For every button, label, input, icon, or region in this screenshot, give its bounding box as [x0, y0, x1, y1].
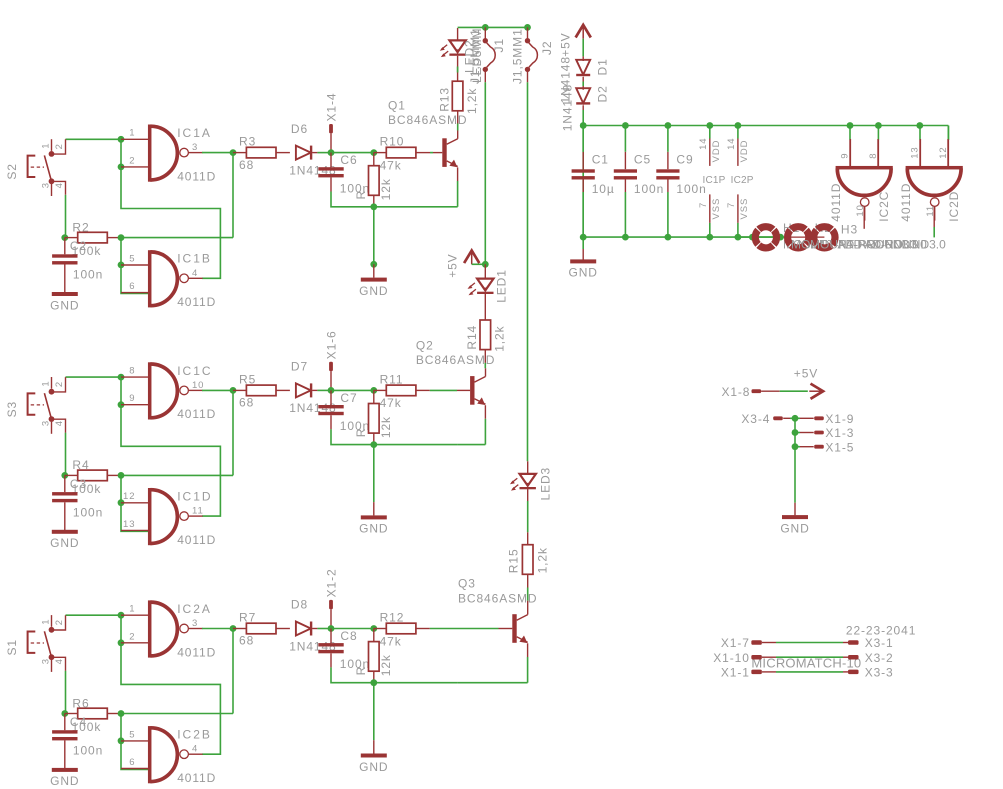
- svg-text:D2: D2: [595, 85, 609, 102]
- svg-text:9: 9: [840, 153, 851, 159]
- junction: [61, 472, 68, 479]
- svg-text:5: 5: [129, 253, 135, 264]
- transistor Q2 BC846ASMD: [416, 338, 495, 405]
- svg-text:4011D: 4011D: [177, 407, 216, 421]
- junction: [118, 374, 125, 381]
- wire Q2 emitter down: [484, 405, 486, 419]
- svg-text:X1-8: X1-8: [721, 385, 750, 399]
- wire diode to junction: [317, 152, 331, 154]
- svg-text:C8: C8: [340, 629, 357, 643]
- svg-text:Q2: Q2: [416, 338, 434, 352]
- junction: [524, 24, 531, 31]
- LED LED1: [468, 264, 509, 303]
- diode D6: [289, 122, 336, 178]
- junction: [118, 234, 125, 241]
- svg-text:X1-3: X1-3: [825, 426, 854, 440]
- svg-text:R10: R10: [380, 135, 405, 149]
- resistor R11 47k: [374, 372, 416, 410]
- junction: [706, 234, 713, 241]
- power pins IC1P: [698, 126, 726, 238]
- svg-text:1,2k: 1,2k: [465, 88, 479, 114]
- svg-text:13: 13: [910, 146, 921, 158]
- wire IC2A output column down: [232, 629, 234, 714]
- svg-text:IC2B: IC2B: [177, 728, 212, 742]
- resistor R2: [65, 220, 121, 258]
- svg-text:100n: 100n: [73, 505, 103, 519]
- junction: [118, 136, 125, 143]
- pin X1-1: [721, 666, 762, 680]
- wire IC1A output column down: [232, 153, 234, 238]
- junction: [118, 737, 125, 744]
- wire Q1 collector to R13: [457, 131, 459, 139]
- ground: [359, 740, 388, 774]
- wire R row right to output column: [121, 713, 233, 715]
- NAND gate IC2C (unused): [829, 139, 893, 222]
- svg-text:IC2P: IC2P: [731, 175, 754, 186]
- svg-text:R11: R11: [380, 372, 404, 386]
- wire D2 to VDD rail: [582, 105, 584, 110]
- junction: [580, 234, 587, 241]
- junction: [370, 149, 377, 156]
- power +5V arrow (X1-8): [794, 366, 823, 399]
- svg-text:IC1C: IC1C: [177, 364, 212, 378]
- wire Q3 emitter down: [527, 643, 529, 657]
- svg-text:7: 7: [698, 202, 709, 208]
- svg-text:BC846ASMD: BC846ASMD: [416, 353, 495, 367]
- ground: [359, 502, 388, 536]
- svg-text:11: 11: [192, 506, 204, 517]
- svg-text:BC846ASMD: BC846ASMD: [458, 591, 537, 605]
- svg-text:3: 3: [40, 420, 51, 426]
- svg-text:6: 6: [129, 757, 135, 768]
- svg-text:12: 12: [938, 146, 949, 158]
- wire VDD rail: [583, 125, 948, 127]
- junction: [118, 639, 125, 646]
- junction: [580, 122, 587, 129]
- pin X3-2: [848, 651, 894, 665]
- switch S1: [5, 615, 66, 672]
- junction: [482, 261, 489, 268]
- svg-text:4011D: 4011D: [177, 533, 216, 547]
- svg-text:R: R: [354, 666, 368, 676]
- wire GND rail: [583, 236, 784, 238]
- junction: [118, 499, 125, 506]
- wire diode to junction: [317, 628, 331, 630]
- transistor Q1 BC846ASMD: [388, 99, 467, 168]
- svg-text:4011D: 4011D: [899, 183, 913, 222]
- svg-text:IC2D: IC2D: [947, 191, 961, 222]
- junction: [482, 24, 489, 31]
- diode D2 1N4148: [561, 84, 610, 131]
- svg-text:D8: D8: [291, 598, 308, 612]
- capacitor C9 100n: [656, 126, 706, 238]
- svg-text:GND: GND: [359, 522, 388, 536]
- resistor R13 1,2k: [437, 56, 479, 114]
- power pins IC2P: [726, 126, 754, 238]
- junction: [665, 122, 672, 129]
- svg-text:C1: C1: [592, 153, 609, 167]
- wire X1-10 to X3-2: [762, 656, 776, 658]
- wire S1 pin4 down: [65, 671, 67, 714]
- wire R row right to output column: [121, 237, 233, 239]
- capacitor C7: [318, 390, 370, 433]
- svg-text:X1-4: X1-4: [325, 93, 339, 122]
- wire S2 pin2 to IC1A inputs: [66, 138, 122, 140]
- wire IC2D input pins: [919, 126, 921, 141]
- capacitor C5 100n: [614, 126, 664, 238]
- junction: [370, 441, 377, 448]
- svg-text:C4: C4: [70, 715, 87, 729]
- svg-text:GND: GND: [50, 536, 79, 550]
- diode D1 1N4148: [558, 56, 609, 103]
- resistor R4: [65, 458, 121, 496]
- svg-text:1,2k: 1,2k: [493, 325, 507, 351]
- resistor R12 47k: [374, 611, 416, 649]
- svg-text:1: 1: [40, 380, 51, 386]
- wire R row left: [64, 713, 66, 715]
- svg-text:Q3: Q3: [458, 577, 476, 591]
- resistor R6: [65, 696, 121, 734]
- diode D8: [289, 598, 336, 654]
- svg-text:X3-1: X3-1: [865, 636, 894, 650]
- svg-text:3: 3: [40, 182, 51, 188]
- solder jumper J2: [511, 27, 555, 84]
- svg-text:D6: D6: [291, 122, 308, 136]
- svg-text:100n: 100n: [73, 743, 103, 757]
- wire cap bottom to emitter row: [331, 667, 458, 682]
- switch S3: [5, 377, 66, 434]
- svg-text:4011D: 4011D: [177, 169, 216, 183]
- resistor R5: [233, 372, 290, 409]
- svg-text:14: 14: [726, 138, 737, 150]
- svg-text:D1: D1: [595, 58, 609, 75]
- ground: [50, 768, 79, 788]
- junction: [328, 387, 335, 394]
- wire R row left: [64, 474, 66, 476]
- wire IC1C output column down: [232, 390, 234, 475]
- svg-text:LED1: LED1: [495, 269, 509, 303]
- wire IC1D inputs: [121, 475, 148, 531]
- svg-text:4011D: 4011D: [177, 771, 216, 785]
- wire Q1 emitter row end: [457, 206, 459, 208]
- svg-text:R2: R2: [72, 220, 89, 234]
- svg-text:GND: GND: [359, 284, 388, 298]
- svg-text:R: R: [354, 190, 368, 200]
- svg-text:8: 8: [129, 366, 135, 377]
- NAND gate IC1D: [121, 488, 216, 547]
- svg-text:C6: C6: [340, 153, 357, 167]
- pin X3-1: [848, 636, 894, 650]
- mount pad H2: [788, 221, 928, 252]
- ground (X pins): [780, 503, 809, 536]
- wire S3 pin4 down: [65, 433, 67, 476]
- svg-text:R4: R4: [72, 458, 89, 472]
- junction: [118, 612, 125, 619]
- svg-text:R13: R13: [437, 87, 451, 112]
- pin X1-7: [721, 636, 762, 650]
- svg-text:4011D: 4011D: [829, 183, 843, 222]
- svg-text:S2: S2: [5, 163, 19, 179]
- junction: [230, 625, 237, 632]
- svg-text:IC2C: IC2C: [877, 191, 891, 222]
- NAND gate IC2D (unused): [899, 139, 963, 222]
- junction: [230, 149, 237, 156]
- svg-text:X1-1: X1-1: [721, 666, 750, 680]
- svg-text:D7: D7: [291, 360, 308, 374]
- svg-text:GND: GND: [50, 298, 79, 312]
- svg-text:68: 68: [239, 158, 254, 172]
- wire LED3 to R15: [527, 489, 529, 501]
- junction: [370, 387, 377, 394]
- svg-text:IC1B: IC1B: [177, 252, 212, 266]
- svg-text:1: 1: [40, 619, 51, 625]
- resistor R15 1,2k: [507, 532, 550, 587]
- wire input junction column IC2A: [120, 615, 122, 643]
- svg-text:X1-9: X1-9: [825, 412, 854, 426]
- svg-text:100n: 100n: [73, 268, 103, 282]
- junction: [749, 234, 756, 241]
- svg-text:3: 3: [192, 618, 198, 629]
- power +5V arrow (supply): [558, 25, 591, 57]
- wire S1 pin2 to IC2A inputs: [66, 614, 122, 616]
- wire R10 to Q1 base: [416, 152, 430, 154]
- wire X3-4 junction: [790, 417, 795, 419]
- svg-text:R: R: [354, 428, 368, 438]
- wire IC2B inputs: [121, 714, 148, 770]
- junction: [875, 122, 882, 129]
- capacitor C8: [318, 629, 370, 672]
- svg-text:C2: C2: [70, 239, 87, 253]
- svg-text:1: 1: [129, 604, 135, 615]
- wire +5V column to GND symbol: [582, 126, 584, 250]
- wire R14 to Q2 collector: [484, 363, 486, 368]
- svg-text:H3: H3: [841, 223, 858, 237]
- NAND gate IC2A: [121, 600, 216, 659]
- wire feedback IC1D out to IC1C in2: [121, 405, 220, 516]
- junction: [777, 234, 784, 241]
- wire Q3 collector: [527, 601, 529, 615]
- svg-text:R14: R14: [465, 325, 479, 350]
- junction: [370, 625, 377, 632]
- svg-text:2: 2: [54, 619, 65, 625]
- junction: [706, 122, 713, 129]
- ground (power): [569, 249, 598, 280]
- wire +5V to D1: [582, 39, 584, 57]
- ground: [359, 261, 388, 298]
- wire R row right to output column: [121, 474, 233, 476]
- capacitor C3: [52, 475, 103, 530]
- capacitor C4: [52, 714, 103, 769]
- resistor R 12k: [354, 629, 393, 686]
- svg-text:R7: R7: [239, 611, 256, 625]
- svg-text:LED3: LED3: [538, 467, 552, 501]
- wire IC2A output to R7: [202, 628, 233, 630]
- junction: [61, 234, 68, 241]
- wire VDD rail corner to IC2D pin 12: [947, 126, 949, 141]
- svg-text:1: 1: [40, 143, 51, 149]
- svg-text:4: 4: [54, 420, 65, 426]
- junction: [118, 164, 125, 171]
- junction: [622, 234, 629, 241]
- resistor R7: [233, 611, 290, 648]
- wire Q2 collector: [485, 368, 487, 376]
- solder jumper J1: [468, 27, 506, 84]
- wire J1 column down: [484, 82, 486, 264]
- svg-text:C7: C7: [340, 391, 357, 405]
- wire Q2 emitter row: [484, 444, 486, 446]
- svg-text:47k: 47k: [380, 634, 402, 648]
- svg-text:7: 7: [726, 202, 737, 208]
- wire cap bottom to emitter row: [331, 429, 458, 444]
- svg-text:1,2k: 1,2k: [536, 547, 550, 573]
- svg-text:R12: R12: [380, 611, 405, 625]
- pin header X1-4: [325, 93, 339, 153]
- junction: [370, 679, 377, 686]
- wire IC1C output to R5: [202, 389, 233, 391]
- svg-text:C5: C5: [634, 153, 651, 167]
- svg-text:X1-7: X1-7: [721, 636, 750, 650]
- wire X1-1 to X3-3: [762, 671, 776, 673]
- pin X3-4: [741, 412, 790, 426]
- svg-text:J1,5MM1: J1,5MM1: [511, 28, 525, 84]
- wire IC1A output to R3: [202, 152, 233, 154]
- junction: [792, 415, 799, 422]
- junction: [792, 429, 799, 436]
- svg-text:12k: 12k: [379, 654, 393, 676]
- svg-text:13: 13: [123, 519, 135, 530]
- junction: [328, 625, 335, 632]
- svg-text:22-23-2041: 22-23-2041: [846, 623, 916, 637]
- svg-text:4011D: 4011D: [177, 645, 216, 659]
- svg-text:+5V: +5V: [558, 32, 572, 56]
- junction: [118, 262, 125, 269]
- svg-text:4: 4: [54, 658, 65, 664]
- svg-text:12: 12: [123, 491, 135, 502]
- svg-text:2: 2: [54, 143, 65, 149]
- junction: [735, 234, 742, 241]
- pin X1-8: [721, 385, 779, 399]
- NAND gate IC1C: [121, 362, 216, 421]
- wire top rail: [458, 26, 528, 28]
- wire X1-7 to X3-1: [762, 642, 776, 644]
- junction: [665, 234, 672, 241]
- capacitor C6: [318, 153, 370, 196]
- power +5V arrow (LED1): [446, 251, 480, 278]
- wire R15 to Q3 collector: [527, 588, 529, 601]
- diode D7: [289, 360, 336, 416]
- wire R row left: [64, 237, 66, 239]
- svg-text:S3: S3: [5, 401, 19, 417]
- switch S2: [5, 139, 66, 196]
- svg-text:J2: J2: [540, 41, 554, 55]
- capacitor C2: [52, 238, 103, 293]
- svg-text:47k: 47k: [380, 396, 402, 410]
- wire junction to R10: [331, 152, 374, 154]
- mount pad H1: [755, 221, 919, 252]
- svg-text:X1-2: X1-2: [325, 568, 339, 597]
- svg-text:100n: 100n: [634, 182, 664, 196]
- svg-text:VSS: VSS: [739, 198, 750, 220]
- junction: [230, 387, 237, 394]
- svg-text:1: 1: [129, 128, 135, 139]
- svg-text:IC1A: IC1A: [177, 126, 212, 140]
- wire R11 to Q2 base: [416, 389, 430, 391]
- mount pad H3: [810, 223, 946, 252]
- pin X1-3: [795, 426, 854, 440]
- junction: [118, 401, 125, 408]
- svg-text:GND: GND: [50, 774, 79, 788]
- svg-text:X1-6: X1-6: [325, 330, 339, 359]
- wire +5V to junction: [472, 263, 486, 265]
- svg-text:5: 5: [129, 729, 135, 740]
- wire X pins to ground: [794, 418, 796, 502]
- wire IC2C input pins: [849, 126, 851, 141]
- svg-text:12k: 12k: [379, 416, 393, 438]
- resistor R 12k: [354, 390, 393, 447]
- pin header X1-2: [325, 568, 339, 628]
- svg-text:BC846ASMD: BC846ASMD: [388, 113, 467, 127]
- ground: [50, 292, 79, 312]
- NAND gate IC1A: [121, 125, 216, 184]
- wire cap bottom to emitter row: [331, 192, 458, 207]
- wire to ground: [373, 207, 375, 264]
- svg-text:+5V: +5V: [446, 253, 460, 277]
- wire feedback IC2B out to IC2A in2: [121, 643, 220, 754]
- pin X1-9: [795, 412, 854, 426]
- wire Q1 emitter down: [457, 167, 459, 181]
- svg-text:X3-4: X3-4: [741, 412, 770, 426]
- svg-text:3: 3: [40, 658, 51, 664]
- NAND gate IC2B: [121, 726, 216, 785]
- wire to ground: [373, 445, 375, 503]
- svg-text:9: 9: [129, 393, 135, 404]
- resistor R10 47k: [374, 135, 416, 173]
- svg-text:J1: J1: [492, 38, 506, 52]
- svg-text:68: 68: [239, 396, 254, 410]
- wire S3 pin2 to IC1C inputs: [66, 376, 122, 378]
- svg-text:VDD: VDD: [739, 140, 750, 163]
- wire R12 to Q3 base: [416, 628, 430, 630]
- junction: [735, 122, 742, 129]
- wire junction to R11: [331, 389, 374, 391]
- LED LED2: [440, 28, 484, 83]
- wire diode to junction: [317, 389, 331, 391]
- svg-text:IC1D: IC1D: [177, 490, 212, 504]
- junction: [792, 443, 799, 450]
- junction: [916, 122, 923, 129]
- wire input junction column IC1C: [120, 377, 122, 405]
- ground: [50, 530, 79, 550]
- svg-text:R5: R5: [239, 372, 256, 386]
- wire emitter row block3 extension: [458, 682, 528, 684]
- wire D1 to D2: [582, 77, 584, 90]
- svg-text:2: 2: [54, 381, 65, 387]
- svg-text:4: 4: [192, 744, 198, 755]
- junction: [118, 710, 125, 717]
- wire J2 column down: [527, 82, 529, 461]
- svg-text:10: 10: [192, 380, 204, 391]
- resistor R3: [233, 135, 290, 172]
- pin X3-3: [848, 666, 894, 680]
- svg-text:2: 2: [129, 631, 135, 642]
- svg-text:C9: C9: [676, 153, 693, 167]
- LED LED3: [510, 461, 552, 500]
- junction: [118, 472, 125, 479]
- wire IC1B inputs: [121, 238, 148, 294]
- svg-text:GND: GND: [569, 266, 598, 280]
- NAND gate IC1B: [121, 250, 216, 309]
- svg-text:12k: 12k: [379, 178, 393, 200]
